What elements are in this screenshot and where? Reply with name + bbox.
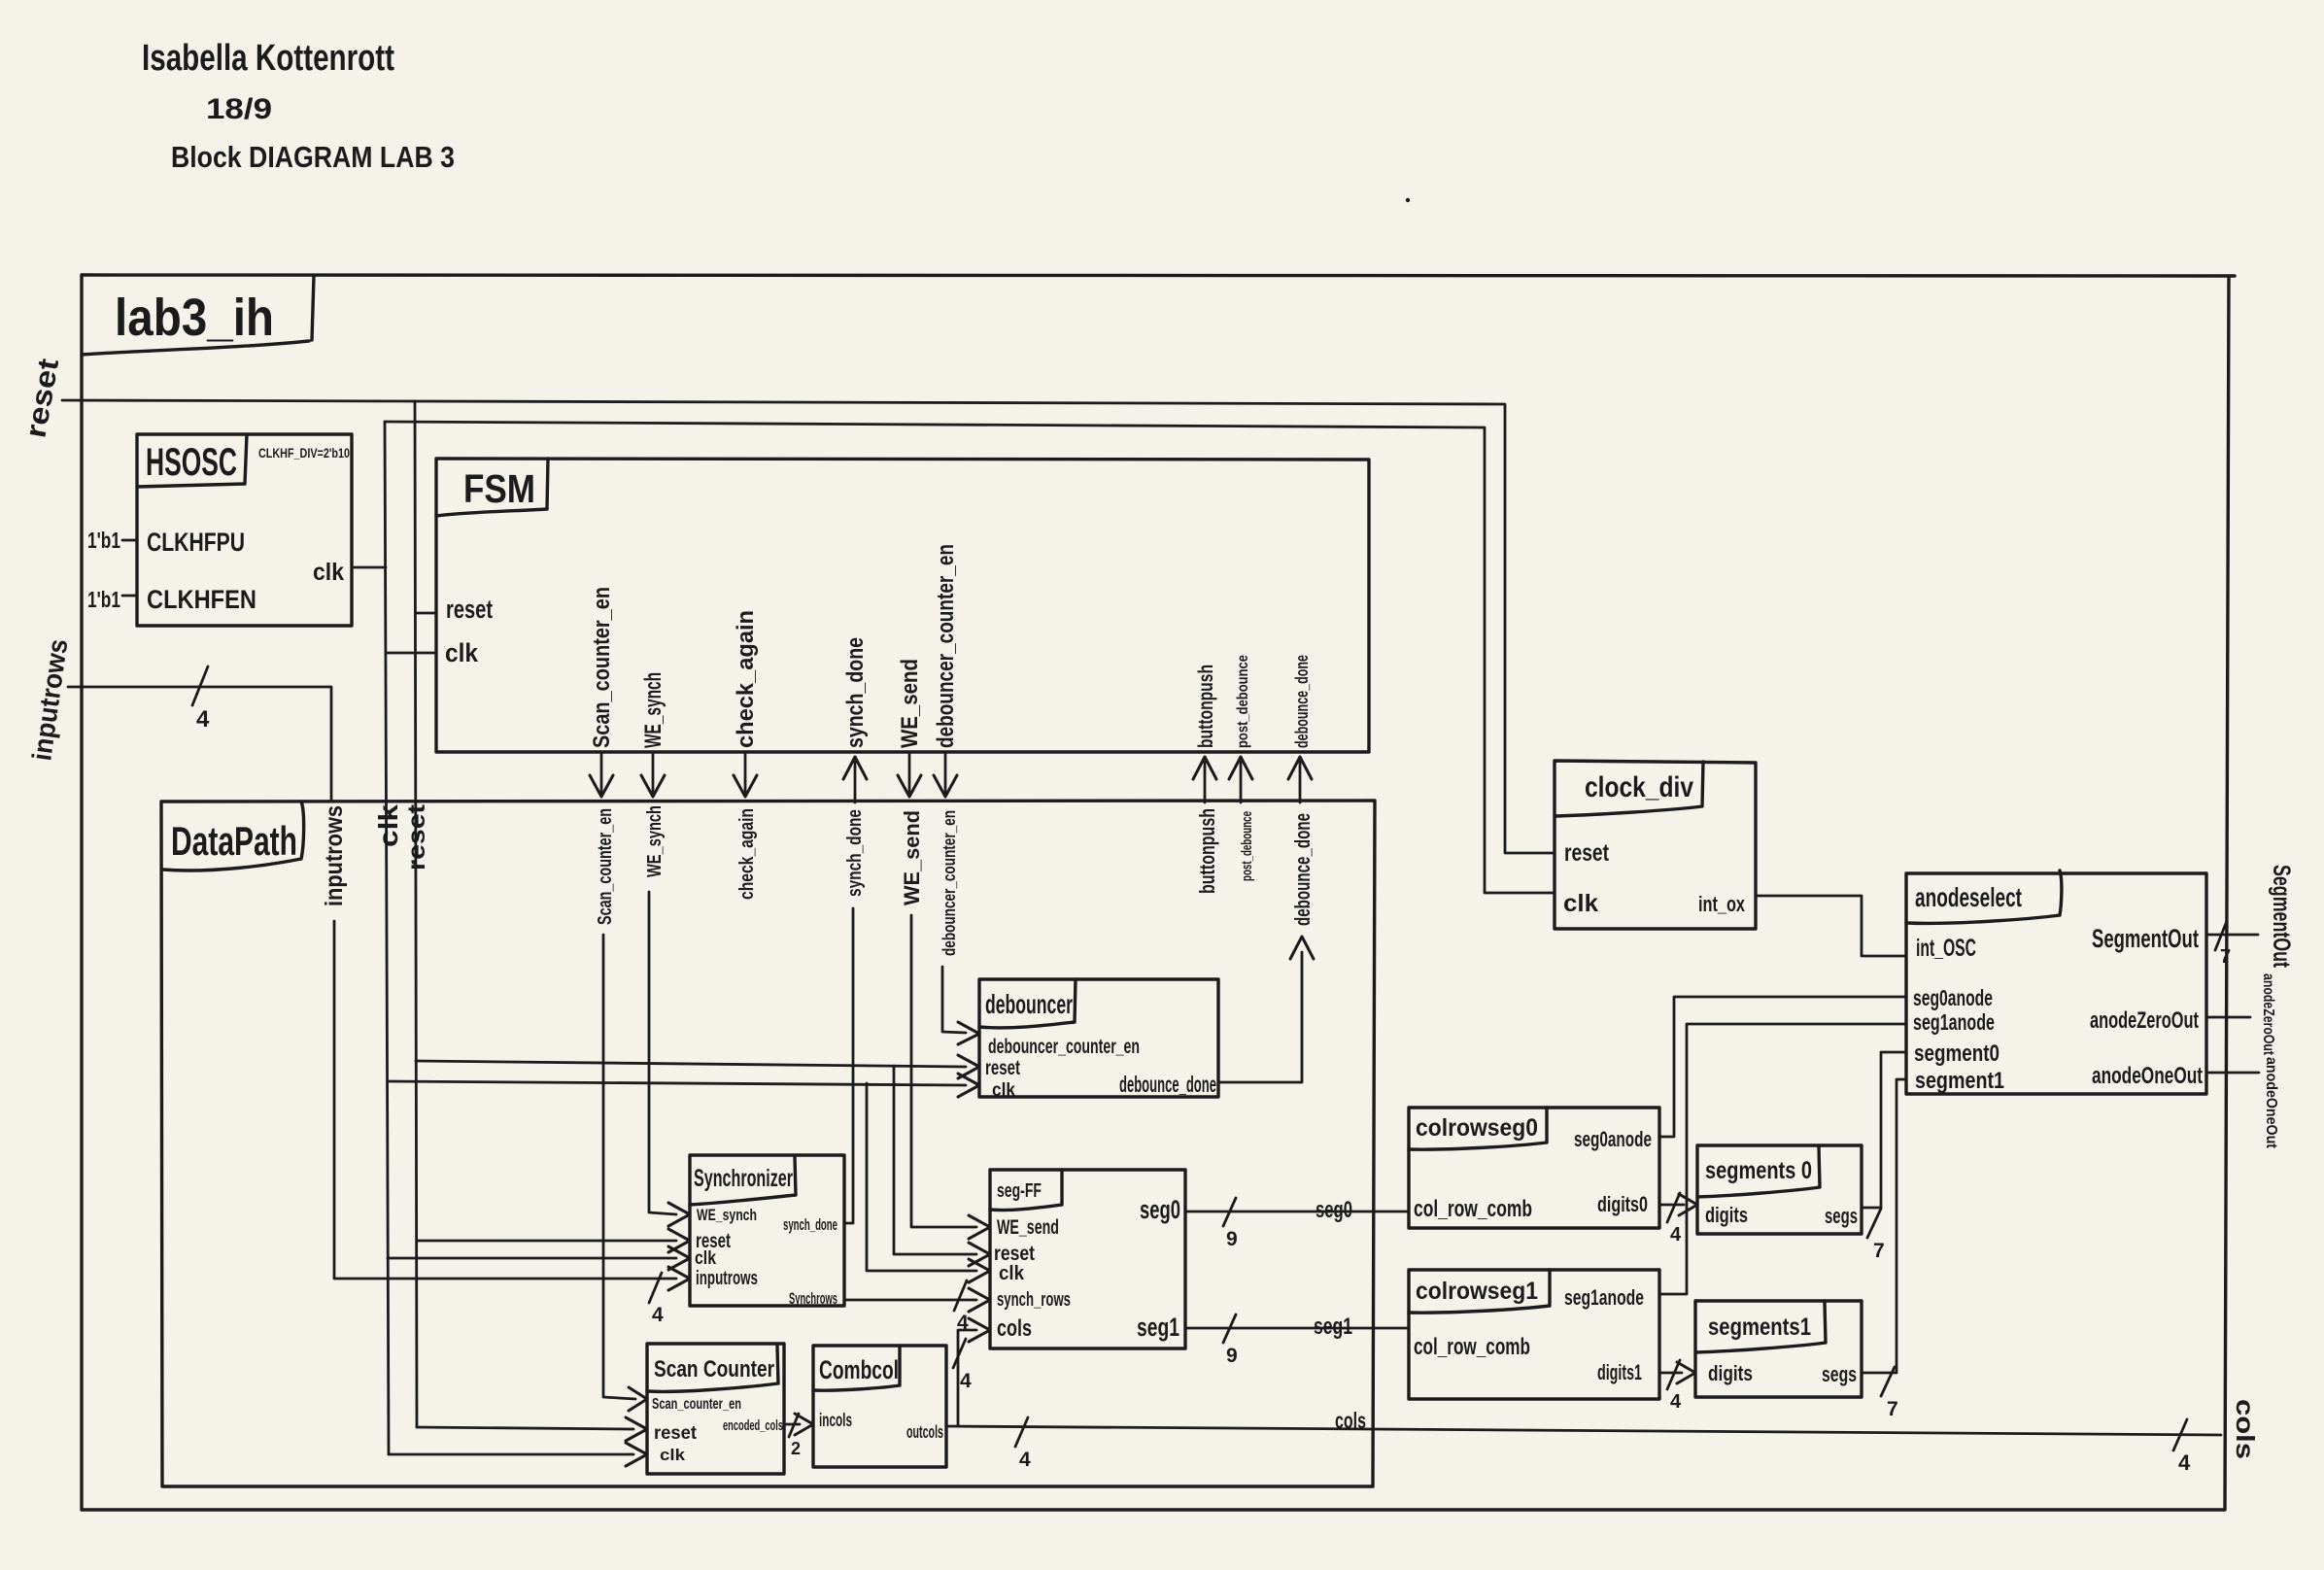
block DataPath bbox=[161, 801, 1375, 1486]
stray dot bbox=[1406, 198, 1410, 202]
svg-text:WE_send: WE_send bbox=[997, 1216, 1059, 1239]
Synchronizer tab bbox=[690, 1157, 796, 1205]
svg-text:seg1anode: seg1anode bbox=[1913, 1009, 1995, 1035]
svg-text:synch_done: synch_done bbox=[844, 809, 866, 897]
svg-text:9: 9 bbox=[1226, 1345, 1238, 1367]
svg-text:DataPath: DataPath bbox=[171, 818, 297, 864]
svg-text:7: 7 bbox=[2220, 946, 2231, 968]
svg-text:2: 2 bbox=[791, 1439, 801, 1458]
segments1 tab bbox=[1695, 1303, 1826, 1352]
svg-text:SegmentOut: SegmentOut bbox=[2092, 924, 2199, 953]
lab3_ih tab bbox=[82, 276, 314, 355]
svg-text:int_ox: int_ox bbox=[1698, 892, 1746, 916]
svg-text:digits0: digits0 bbox=[1597, 1192, 1648, 1216]
svg-text:debouncer: debouncer bbox=[985, 989, 1073, 1019]
svg-text:check_again: check_again bbox=[733, 610, 759, 748]
wire digits1 to segments1 bbox=[1659, 1372, 1682, 1375]
wire cols branch up to seg-FF bbox=[958, 1330, 976, 1426]
wire WE_synch to Synchronizer bbox=[649, 892, 676, 1214]
wire inputrows: left edge into DataPath bbox=[68, 687, 331, 802]
svg-text:segments1: segments1 bbox=[1708, 1314, 1811, 1341]
anodeselect tab bbox=[1906, 870, 2062, 923]
svg-text:reset: reset bbox=[994, 1243, 1035, 1265]
slash /4 on Synchrows bbox=[954, 1280, 967, 1311]
svg-text:4: 4 bbox=[196, 706, 210, 733]
svg-text:segs: segs bbox=[1822, 1362, 1857, 1386]
wire clk row to Scan Counter bbox=[389, 1453, 633, 1456]
wire seg1 to colrowseg1 bbox=[1185, 1327, 1409, 1330]
DataPath tab bbox=[162, 802, 304, 870]
svg-text:seg0anode: seg0anode bbox=[1574, 1127, 1652, 1151]
wire reset bus vertical bbox=[415, 401, 417, 1427]
slash /4 on inputrows bbox=[192, 666, 208, 705]
block colrowseg1 bbox=[1409, 1270, 1659, 1399]
svg-text:4: 4 bbox=[960, 1370, 972, 1392]
svg-text:cols: cols bbox=[2231, 1399, 2260, 1459]
wire anodeZeroOut bbox=[2206, 1016, 2250, 1019]
svg-text:synch_done: synch_done bbox=[842, 637, 869, 748]
block segments1 bbox=[1695, 1301, 1862, 1397]
svg-text:reset: reset bbox=[654, 1423, 698, 1444]
wire seg0anode to anodeselect bbox=[1659, 997, 1906, 1137]
wire Synchrows to seg-FF bbox=[844, 1299, 976, 1302]
block Scan Counter bbox=[647, 1344, 784, 1474]
slash /9 on seg0 bbox=[1223, 1198, 1236, 1226]
wire debounce_done from debouncer (with mid arrow) bbox=[1218, 952, 1302, 1082]
svg-text:debouncer_counter_en: debouncer_counter_en bbox=[940, 810, 959, 956]
wire Scan_counter_en to Scan Counter bbox=[603, 935, 635, 1399]
seg-FF tab bbox=[990, 1170, 1062, 1211]
svg-text:anodeOneOut: anodeOneOut bbox=[2092, 1063, 2203, 1089]
svg-text:col_row_comb: col_row_comb bbox=[1414, 1196, 1532, 1222]
svg-text:incols: incols bbox=[819, 1411, 852, 1431]
Scan Counter tab bbox=[647, 1346, 778, 1391]
wire debouncer_counter_en arrow FSM->DataPath bbox=[944, 752, 947, 793]
svg-text:reset: reset bbox=[985, 1057, 1020, 1079]
wire cols long run bbox=[946, 1426, 2221, 1435]
svg-text:WE_send: WE_send bbox=[897, 659, 923, 748]
svg-text:4: 4 bbox=[1670, 1391, 1682, 1413]
wire reset row to Synchronizer bbox=[417, 1240, 676, 1243]
svg-text:CLKHFEN: CLKHFEN bbox=[147, 585, 256, 614]
module box lab3_ih bbox=[82, 275, 2235, 1510]
svg-text:reset: reset bbox=[403, 803, 430, 870]
wire inputrows down to Synchronizer bbox=[334, 921, 676, 1279]
wire debounce_done arrow DataPath->FSM bbox=[1299, 762, 1302, 802]
wire int_osc to anodeselect bbox=[1756, 896, 1906, 956]
svg-text:inputrows: inputrows bbox=[696, 1268, 758, 1289]
slash /9 on seg1 bbox=[1223, 1314, 1236, 1343]
svg-text:clock_div: clock_div bbox=[1585, 771, 1693, 803]
svg-text:4: 4 bbox=[1670, 1224, 1682, 1246]
slash /4 on cols run bbox=[1015, 1417, 1028, 1447]
svg-text:CLKHFPU: CLKHFPU bbox=[147, 528, 245, 557]
svg-text:clk: clk bbox=[313, 559, 344, 586]
svg-text:synch_done: synch_done bbox=[783, 1215, 837, 1234]
svg-text:WE_synch: WE_synch bbox=[644, 805, 666, 877]
block Synchronizer bbox=[690, 1155, 844, 1306]
svg-text:Synchronizer: Synchronizer bbox=[694, 1165, 793, 1192]
svg-text:clk: clk bbox=[992, 1080, 1015, 1101]
svg-text:SegmentOut: SegmentOut bbox=[2268, 865, 2295, 968]
svg-text:Combcol: Combcol bbox=[819, 1355, 899, 1384]
wire encoded_cols to Combcol bbox=[784, 1423, 800, 1426]
svg-text:anodeselect: anodeselect bbox=[1915, 882, 2022, 912]
clock_div tab bbox=[1555, 762, 1703, 816]
wire HSOSC clk to bus bbox=[352, 566, 386, 569]
block colrowseg0 bbox=[1409, 1108, 1659, 1228]
svg-text:FSM: FSM bbox=[463, 466, 535, 511]
segments0 tab bbox=[1697, 1147, 1820, 1197]
wire WE_send to seg-FF bbox=[911, 915, 976, 1227]
block segments0 bbox=[1697, 1145, 1862, 1234]
svg-text:7: 7 bbox=[1887, 1398, 1898, 1420]
wire SegmentOut bbox=[2206, 934, 2258, 937]
svg-text:reset: reset bbox=[1564, 839, 1610, 867]
svg-text:Scan_counter_en: Scan_counter_en bbox=[589, 587, 615, 748]
wire clk branch to seg-FF bbox=[867, 1083, 976, 1271]
svg-text:anodeZeroOut: anodeZeroOut bbox=[2090, 1007, 2199, 1034]
svg-text:Scan Counter: Scan Counter bbox=[654, 1356, 774, 1382]
svg-text:debouncer_counter_en: debouncer_counter_en bbox=[933, 544, 959, 748]
wire check_again arrow FSM->DataPath bbox=[744, 752, 747, 793]
svg-text:seg1anode: seg1anode bbox=[1564, 1285, 1644, 1310]
wire WE_send arrow FSM->DataPath bbox=[908, 752, 911, 793]
svg-text:Isabella Kottenrott: Isabella Kottenrott bbox=[142, 38, 394, 79]
wire buttonpush arrow DataPath->FSM bbox=[1204, 762, 1207, 802]
wire debouncer_counter_en to debouncer bbox=[942, 967, 966, 1033]
wire seg0 to colrowseg0 bbox=[1185, 1211, 1409, 1213]
svg-text:cols: cols bbox=[1335, 1408, 1366, 1433]
wire reset row to debouncer bbox=[416, 1061, 966, 1067]
svg-text:debounce_done: debounce_done bbox=[1292, 655, 1312, 748]
wire WE_synch arrow FSM->DataPath bbox=[652, 752, 655, 793]
svg-text:segments 0: segments 0 bbox=[1705, 1157, 1812, 1184]
svg-text:HSOSC: HSOSC bbox=[146, 441, 237, 484]
svg-text:digits: digits bbox=[1708, 1361, 1753, 1385]
block debouncer bbox=[979, 979, 1218, 1097]
wire segs0 to anodeselect segment0 bbox=[1862, 1052, 1906, 1208]
svg-text:clk: clk bbox=[373, 804, 403, 847]
block Combcol bbox=[813, 1346, 946, 1467]
slash /4 on cols right end bbox=[2173, 1419, 2187, 1451]
wire digits0 to segments0 bbox=[1659, 1204, 1684, 1207]
wire clk row to Synchronizer bbox=[388, 1257, 676, 1260]
svg-text:encoded_cols: encoded_cols bbox=[723, 1417, 783, 1434]
block clock_div bbox=[1555, 761, 1756, 929]
svg-text:colrowseg0: colrowseg0 bbox=[1416, 1114, 1538, 1142]
svg-text:Block DIAGRAM LAB 3: Block DIAGRAM LAB 3 bbox=[171, 140, 455, 174]
block seg-FF bbox=[990, 1170, 1185, 1348]
svg-text:int_OSC: int_OSC bbox=[1916, 935, 1976, 962]
slash /7 on segs0 bbox=[1867, 1209, 1881, 1238]
svg-text:segs: segs bbox=[1825, 1204, 1858, 1228]
block FSM bbox=[436, 459, 1369, 752]
slash /4 on digits0 bbox=[1667, 1193, 1680, 1222]
wire synch_done arrow DataPath->FSM bbox=[854, 762, 857, 802]
svg-text:Synchrows: Synchrows bbox=[789, 1289, 837, 1308]
svg-text:debouncer_counter_en: debouncer_counter_en bbox=[988, 1036, 1140, 1058]
svg-text:WE_synch: WE_synch bbox=[640, 672, 666, 748]
svg-text:clk: clk bbox=[999, 1263, 1025, 1284]
svg-text:18/9: 18/9 bbox=[206, 93, 272, 125]
wire reset row to Scan Counter bbox=[417, 1427, 633, 1429]
svg-text:Scan_counter_en: Scan_counter_en bbox=[595, 808, 616, 925]
svg-text:segment0: segment0 bbox=[1914, 1041, 1999, 1067]
svg-text:cols: cols bbox=[997, 1315, 1032, 1342]
svg-text:seg1: seg1 bbox=[1314, 1314, 1352, 1340]
svg-text:CLKHF_DIV=2'b10: CLKHF_DIV=2'b10 bbox=[258, 445, 350, 461]
svg-text:debounce_done: debounce_done bbox=[1119, 1072, 1216, 1097]
svg-text:post_debounce: post_debounce bbox=[1239, 811, 1255, 881]
block HSOSC bbox=[137, 434, 352, 626]
svg-text:1'b1: 1'b1 bbox=[87, 528, 120, 553]
slash /4 on cols branch bbox=[953, 1339, 966, 1368]
svg-text:seg-FF: seg-FF bbox=[997, 1180, 1042, 1202]
svg-text:clk: clk bbox=[695, 1248, 716, 1269]
svg-text:inputrows: inputrows bbox=[321, 805, 348, 906]
FSM tab bbox=[436, 459, 548, 516]
debouncer tab bbox=[979, 979, 1076, 1028]
svg-text:col_row_comb: col_row_comb bbox=[1414, 1334, 1530, 1360]
wire clk row to debouncer bbox=[388, 1081, 966, 1085]
svg-text:debounce_done: debounce_done bbox=[1290, 813, 1315, 926]
wire anodeOneOut bbox=[2206, 1072, 2259, 1075]
svg-text:WE_synch: WE_synch bbox=[697, 1206, 757, 1224]
block anodeselect bbox=[1906, 873, 2206, 1094]
svg-text:digits1: digits1 bbox=[1597, 1360, 1642, 1384]
svg-text:4: 4 bbox=[1019, 1449, 1031, 1471]
svg-text:synch_rows: synch_rows bbox=[997, 1289, 1071, 1311]
svg-text:outcols: outcols bbox=[906, 1422, 943, 1442]
svg-text:9: 9 bbox=[1226, 1228, 1238, 1250]
svg-text:anodeOneOut: anodeOneOut bbox=[2263, 1057, 2279, 1149]
colrowseg0 tab bbox=[1409, 1108, 1547, 1149]
slash /7 on SegmentOut bbox=[2215, 921, 2227, 950]
slash /7 on segs1 bbox=[1881, 1367, 1895, 1396]
wire seg1anode to anodeselect bbox=[1659, 1024, 1906, 1294]
svg-text:seg0anode: seg0anode bbox=[1913, 985, 1993, 1010]
wire clk top run to clock_div bbox=[385, 422, 1555, 893]
slash /2 on encoded_cols bbox=[789, 1414, 799, 1437]
svg-text:1'b1: 1'b1 bbox=[87, 587, 120, 612]
svg-text:anodeZeroOut: anodeZeroOut bbox=[2260, 973, 2276, 1056]
svg-text:digits: digits bbox=[1705, 1203, 1748, 1227]
svg-text:clk: clk bbox=[1563, 890, 1598, 917]
svg-text:7: 7 bbox=[1873, 1240, 1885, 1262]
svg-text:4: 4 bbox=[2178, 1451, 2191, 1475]
svg-text:lab3_ih: lab3_ih bbox=[115, 289, 274, 347]
wire segs1 to anodeselect segment1 bbox=[1862, 1079, 1906, 1373]
svg-text:check_again: check_again bbox=[736, 808, 758, 900]
wire reset net: left edge to clock_div bbox=[62, 400, 1555, 853]
HSOSC tab bbox=[137, 434, 247, 487]
colrowseg1 tab bbox=[1409, 1270, 1550, 1313]
wire reset branch to seg-FF bbox=[894, 1066, 976, 1254]
svg-text:segment1: segment1 bbox=[1915, 1068, 2004, 1094]
svg-text:buttonpush: buttonpush bbox=[1195, 665, 1217, 748]
svg-text:reset: reset bbox=[446, 595, 493, 624]
Combcol tab bbox=[813, 1346, 900, 1390]
svg-text:Scan_counter_en: Scan_counter_en bbox=[652, 1396, 741, 1413]
slash /4 on digits1 bbox=[1667, 1360, 1680, 1389]
wire synch_done from Synchronizer bbox=[844, 908, 853, 1223]
svg-text:clk: clk bbox=[445, 638, 479, 667]
svg-text:buttonpush: buttonpush bbox=[1195, 808, 1219, 894]
svg-text:seg0: seg0 bbox=[1140, 1195, 1180, 1224]
wire Scan_counter_en arrow FSM->DataPath bbox=[600, 752, 603, 793]
svg-text:WE_send: WE_send bbox=[900, 810, 924, 905]
svg-text:colrowseg1: colrowseg1 bbox=[1416, 1278, 1538, 1305]
wire clk bus vertical bbox=[385, 422, 389, 1454]
svg-text:clk: clk bbox=[660, 1446, 686, 1464]
svg-text:seg1: seg1 bbox=[1137, 1313, 1179, 1342]
svg-text:seg0: seg0 bbox=[1316, 1197, 1352, 1223]
svg-text:4: 4 bbox=[652, 1304, 664, 1326]
wire post_debounce arrow DataPath->FSM bbox=[1240, 762, 1243, 802]
slash /4 inputrows at Synchronizer bbox=[649, 1273, 662, 1303]
svg-text:post_debounce: post_debounce bbox=[1235, 655, 1251, 748]
